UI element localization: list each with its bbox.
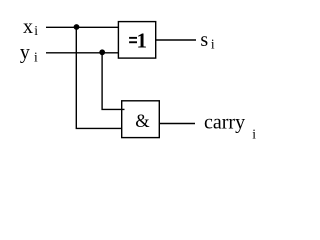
svg-text:i: i — [211, 37, 215, 52]
wire from x_i junction down to AND lower input — [76, 27, 122, 128]
svg-text:x: x — [23, 16, 33, 38]
svg-text:i: i — [252, 126, 256, 141]
svg-text:y: y — [20, 42, 30, 64]
svg-text:carry: carry — [204, 112, 245, 134]
svg-text:&: & — [135, 112, 150, 132]
XOR gate U1 box — [118, 22, 155, 59]
wire XOR output to s_i — [156, 39, 196, 41]
svg-text:i: i — [34, 49, 38, 64]
svg-text:1: 1 — [137, 28, 148, 52]
wire from y_i junction down to AND upper input — [102, 53, 124, 110]
wire y_i input to XOR — [46, 52, 119, 54]
svg-text:i: i — [34, 23, 38, 38]
wire x_i input to XOR — [46, 26, 119, 28]
svg-text:s: s — [200, 29, 208, 51]
AND gate U2 box — [122, 101, 160, 138]
node junction dot on x_i wire — [74, 24, 80, 30]
wire AND output to carry — [159, 123, 195, 125]
XOR gate label =1 : equals bars — [129, 37, 137, 39]
node junction dot on y_i wire — [99, 49, 105, 55]
